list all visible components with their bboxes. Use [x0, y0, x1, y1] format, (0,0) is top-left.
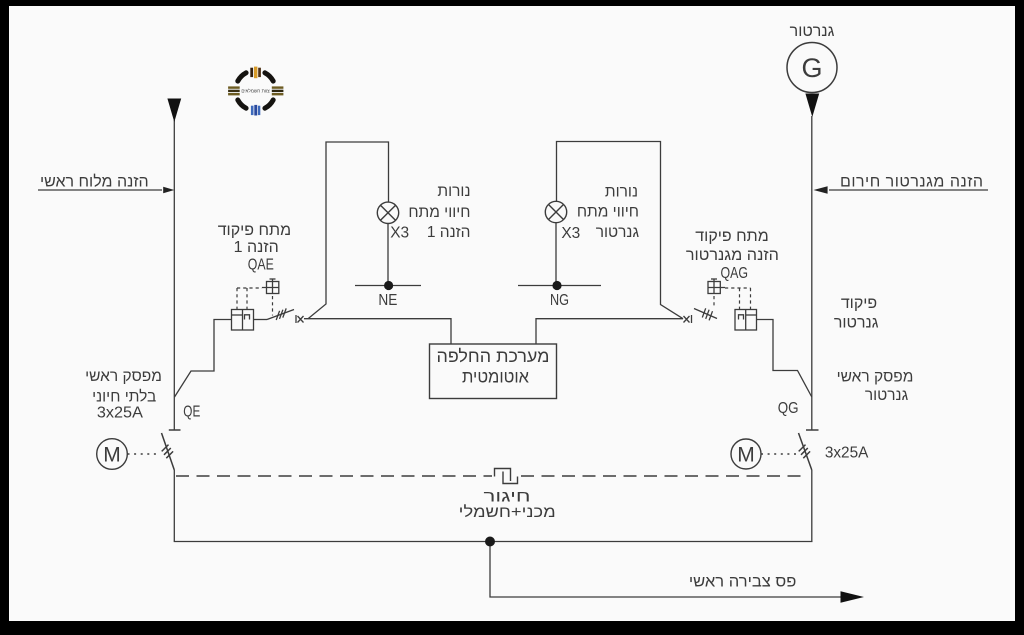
- node NG bar: [518, 285, 601, 287]
- svg-text:נורות: נורות: [605, 184, 638, 201]
- wire: QAG box to QG main vertical: [757, 320, 812, 398]
- svg-text:מפסק ראשי: מפסק ראשי: [837, 369, 914, 386]
- logo bottom bars: [251, 106, 254, 115]
- svg-text:בלתי חיוני: בלתי חיוני: [92, 389, 156, 406]
- wire: QE lower vertical: [173, 470, 175, 542]
- logo right bars: [272, 86, 284, 88]
- dotted link M to QE: [128, 453, 161, 455]
- wire: right lamp to NG: [555, 223, 557, 286]
- interlock hooks symbol: [495, 469, 518, 484]
- ATS box: [430, 344, 557, 399]
- svg-text:חיווי מתח: חיווי מתח: [408, 204, 470, 221]
- arrow top of left main (supply): [167, 99, 181, 123]
- svg-text:הזנה מגנרטור חירום: הזנה מגנרטור חירום: [840, 173, 983, 190]
- node main bus dot: [485, 537, 495, 547]
- wire: QAE tap jog from main line: [175, 320, 232, 398]
- QAE coil symbol: [262, 279, 279, 294]
- wire: right feed line: [829, 189, 988, 191]
- logo left bars: [228, 86, 240, 88]
- motor M left: [97, 439, 128, 470]
- wire: bottom bus: [174, 541, 813, 543]
- wire: QAE contact to ATS box: [304, 319, 451, 344]
- contactor QAE box: [232, 310, 254, 331]
- arrow into left main line: [163, 187, 174, 194]
- svg-text:הזנה מגנרטור: הזנה מגנרטור: [686, 247, 779, 264]
- QAG coil symbol: [708, 279, 725, 294]
- svg-text:גנרטור: גנרטור: [865, 387, 909, 404]
- QAG switch blade: [694, 308, 717, 320]
- QAE fixed contact x: [296, 315, 304, 323]
- wire: left lamp branch trapezoid: [308, 142, 389, 319]
- logo arc NW: [238, 73, 246, 81]
- svg-text:מתח פיקוד: מתח פיקוד: [695, 228, 768, 245]
- wire: right main vertical: [811, 116, 813, 430]
- logo top bars: [250, 68, 253, 77]
- svg-text:QAE: QAE: [248, 256, 274, 273]
- node NG dot: [552, 281, 561, 290]
- svg-text:G: G: [801, 53, 822, 83]
- svg-text:QG: QG: [778, 400, 799, 417]
- wire: left lamp to NE: [387, 224, 389, 286]
- lamp right (indicator): [545, 201, 566, 222]
- wire: busbar drop: [490, 542, 843, 598]
- QAE dashed control links: [237, 288, 273, 316]
- svg-text:צוות חשמלאים: צוות חשמלאים: [241, 89, 270, 94]
- svg-text:נורות: נורות: [437, 183, 470, 200]
- svg-text:פיקוד: פיקוד: [841, 295, 877, 312]
- generator G circle: [787, 43, 837, 93]
- svg-text:QE: QE: [183, 404, 200, 421]
- wire: right lamp branch trapezoid: [557, 142, 684, 319]
- svg-text:מערכת החלפה: מערכת החלפה: [437, 346, 550, 366]
- svg-text:X3: X3: [561, 225, 580, 242]
- arrow into right main line: [814, 186, 828, 194]
- svg-text:הזנה 1: הזנה 1: [234, 239, 279, 256]
- wire: QG lower vertical: [811, 470, 813, 542]
- svg-text:3x25A: 3x25A: [825, 445, 869, 462]
- wire: left feed line: [38, 189, 162, 191]
- QAE switch blade: [254, 308, 295, 320]
- svg-text:3x25A: 3x25A: [97, 404, 143, 421]
- dotted link M to QG: [761, 453, 797, 455]
- node NE dot: [384, 281, 393, 290]
- svg-text:NE: NE: [378, 292, 397, 309]
- svg-text:X3: X3: [390, 224, 409, 241]
- svg-text:אוטומטית: אוטומטית: [462, 367, 529, 387]
- breaker QE: [162, 430, 181, 470]
- svg-text:חיווי מתח: חיווי מתח: [577, 204, 639, 221]
- svg-text:מתח פיקוד: מתח פיקוד: [218, 222, 291, 239]
- breaker QG: [799, 430, 819, 470]
- svg-text:הזנה 1: הזנה 1: [427, 224, 471, 241]
- QAG dashed control links: [714, 288, 751, 310]
- svg-text:M: M: [737, 444, 755, 467]
- svg-text:גנרטור: גנרטור: [834, 314, 879, 331]
- svg-text:M: M: [103, 444, 121, 467]
- interlock dashed line: [176, 475, 806, 477]
- svg-text:מכני+חשמלי: מכני+חשמלי: [459, 504, 556, 521]
- wire: left main vertical: [173, 120, 175, 430]
- contactor QAG box: [735, 310, 757, 331]
- svg-text:גנרטור: גנרטור: [596, 224, 640, 241]
- svg-text:הזנה מלוח ראשי: הזנה מלוח ראשי: [40, 172, 149, 190]
- svg-text:NG: NG: [550, 292, 569, 309]
- logo: electricians team emblem: [228, 67, 283, 116]
- arrow below generator: [805, 94, 819, 118]
- node NE bar: [355, 285, 421, 287]
- arrow busbar right: [841, 591, 865, 602]
- motor M right: [731, 439, 761, 469]
- svg-text:חיגור: חיגור: [484, 489, 531, 506]
- svg-text:פס צבירה ראשי: פס צבירה ראשי: [689, 574, 797, 591]
- svg-text:QAG: QAG: [720, 265, 748, 282]
- logo arc NE: [265, 73, 273, 81]
- logo arc SW: [238, 100, 246, 108]
- svg-text:גנרטור: גנרטור: [790, 23, 835, 40]
- wire: NG side contact to ATS box: [536, 319, 683, 344]
- svg-text:מפסק ראשי: מפסק ראשי: [85, 368, 162, 385]
- QAG fixed contact x: [684, 315, 692, 323]
- lamp left (indicator): [377, 202, 398, 223]
- logo arc SE: [265, 100, 273, 108]
